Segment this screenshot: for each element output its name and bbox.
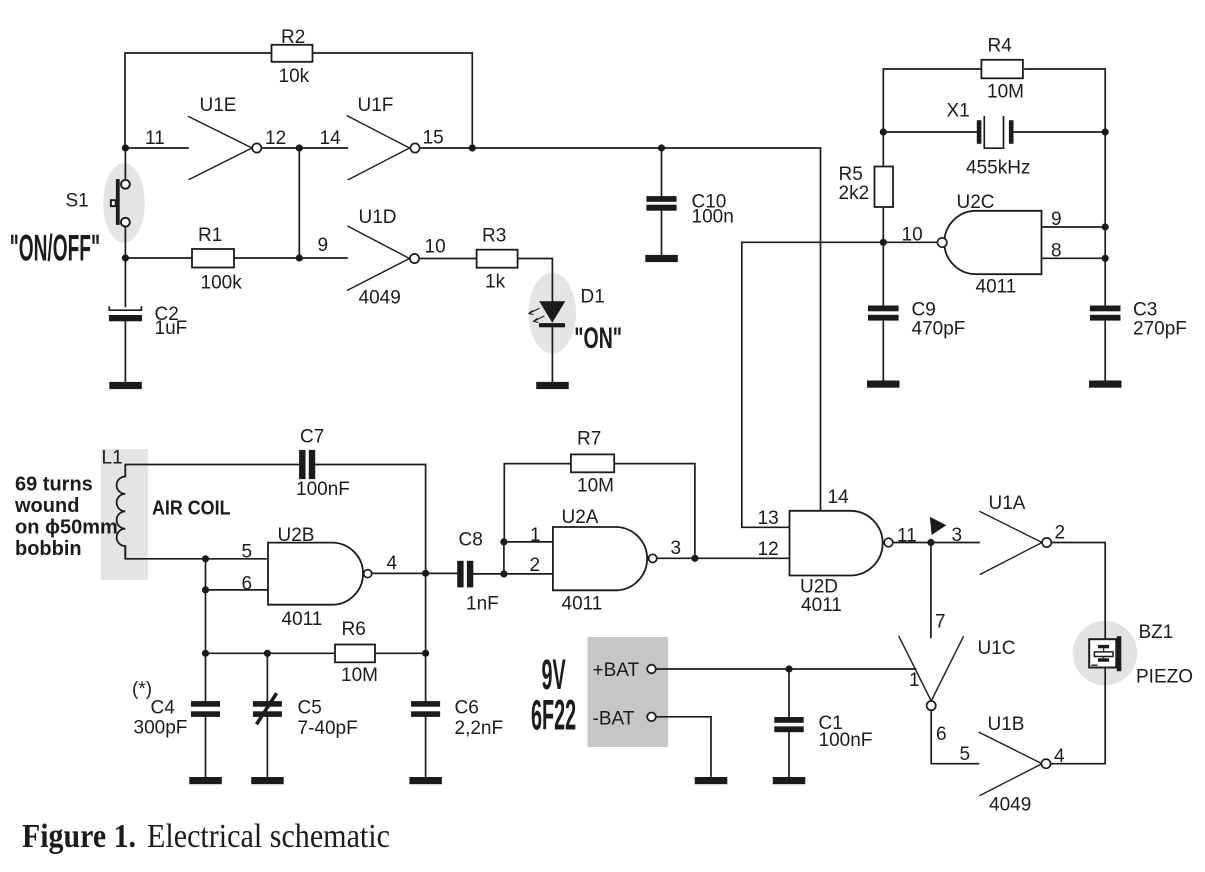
svg-text:Figure 1.: Figure 1. <box>22 818 136 855</box>
wire X1 right <box>1013 131 1105 133</box>
wire node 12 to node 9 <box>298 148 300 258</box>
wire top loop left <box>125 53 271 148</box>
svg-text:D1: D1 <box>581 287 605 308</box>
svg-text:R1: R1 <box>198 225 222 246</box>
svg-text:6: 6 <box>936 724 947 745</box>
svg-text:L1: L1 <box>102 448 123 469</box>
svg-text:U1D: U1D <box>359 207 397 228</box>
wire U2B output node to C6 <box>425 573 427 701</box>
svg-text:R7: R7 <box>577 429 601 450</box>
inverter U1A <box>979 511 1051 574</box>
svg-text:455kHz: 455kHz <box>966 158 1030 179</box>
wire S1 top <box>124 148 126 180</box>
wire L1 top to C7 <box>125 464 299 466</box>
svg-text:4011: 4011 <box>282 609 323 630</box>
NAND gate U2C (mirrored) <box>938 211 1042 274</box>
ground C5 <box>251 777 284 784</box>
wire U1A output to piezo <box>1051 543 1105 640</box>
NAND gate U2B <box>268 543 372 605</box>
ground C4 <box>189 777 222 784</box>
wire R7 left loop <box>504 464 571 542</box>
svg-text:11: 11 <box>897 526 917 547</box>
wire pin 11 <box>125 147 188 149</box>
wire R7 right loop <box>614 464 695 559</box>
svg-text:PIEZO: PIEZO <box>1136 667 1193 688</box>
wire R2 right to U1F column <box>314 53 472 148</box>
capacitor C7 <box>299 450 315 479</box>
svg-text:S1: S1 <box>66 191 89 212</box>
svg-text:7: 7 <box>935 612 946 633</box>
svg-text:5: 5 <box>960 744 971 765</box>
wire U2B output to C8 <box>372 572 457 574</box>
ground C10 <box>645 255 678 262</box>
svg-text:1nF: 1nF <box>466 594 499 615</box>
svg-text:C3: C3 <box>1133 300 1157 321</box>
svg-text:U1F: U1F <box>358 95 394 116</box>
svg-text:10: 10 <box>425 237 446 258</box>
resistor R3 <box>477 250 518 268</box>
ground battery <box>695 777 728 784</box>
wire R6 right <box>375 652 426 654</box>
wire C3 to ground <box>1104 321 1106 381</box>
svg-text:10M: 10M <box>987 82 1024 103</box>
svg-text:C5: C5 <box>298 698 322 719</box>
resistor R4 <box>981 60 1023 79</box>
LED D1 <box>539 301 565 327</box>
switch S1 <box>111 179 130 227</box>
wire +BAT to U1C pin 1 <box>656 668 916 670</box>
wire C1 bottom to ground <box>788 732 790 777</box>
svg-text:6F22: 6F22 <box>531 692 576 740</box>
wire L1 bottom to U2B pin 5 <box>125 546 268 559</box>
wire C6 to ground <box>425 717 427 777</box>
inverter U1E <box>188 116 261 180</box>
L1 highlight <box>101 449 148 580</box>
wire node 3 to U1C input <box>930 543 932 638</box>
svg-text:U1C: U1C <box>978 638 1016 659</box>
wire U1F output to node 15 <box>420 147 473 149</box>
svg-text:4: 4 <box>1054 746 1065 767</box>
svg-text:Electrical schematic: Electrical schematic <box>147 818 390 855</box>
svg-text:"ON": "ON" <box>574 322 622 355</box>
svg-text:(*): (*) <box>132 679 152 700</box>
svg-text:69 turns: 69 turns <box>15 474 93 496</box>
inverter U1B <box>979 732 1051 796</box>
battery terminal -BAT <box>647 713 656 722</box>
svg-text:100k: 100k <box>201 273 243 294</box>
wire main top rail to U2D pin 14 <box>472 148 820 511</box>
svg-text:4049: 4049 <box>989 795 1031 816</box>
svg-text:100n: 100n <box>692 207 734 228</box>
svg-text:U2B: U2B <box>278 525 315 546</box>
svg-text:14: 14 <box>320 128 342 149</box>
svg-text:C4: C4 <box>151 698 176 719</box>
svg-text:C6: C6 <box>455 698 479 719</box>
svg-text:R3: R3 <box>482 226 506 247</box>
svg-text:R2: R2 <box>281 27 305 48</box>
svg-text:X1: X1 <box>947 101 970 122</box>
crystal X1 <box>977 116 1014 148</box>
svg-text:R5: R5 <box>839 164 863 185</box>
wire U2C pin 9 <box>1042 226 1106 228</box>
inductor L1 <box>117 465 126 559</box>
wire U2B pin 6 <box>206 559 269 590</box>
capacitor C8 <box>457 561 473 588</box>
piezo BZ1 highlight <box>1073 621 1137 685</box>
wire U2C pin 8 <box>1042 257 1106 259</box>
NAND gate U2D <box>790 511 893 576</box>
svg-text:1: 1 <box>530 525 541 546</box>
svg-text:C8: C8 <box>459 530 483 551</box>
svg-text:3: 3 <box>671 538 682 559</box>
svg-text:4049: 4049 <box>359 288 401 309</box>
wire C5 to ground <box>266 717 268 777</box>
svg-text:4011: 4011 <box>562 594 603 615</box>
inverter U1C (pointing down) <box>899 636 964 710</box>
svg-text:13: 13 <box>758 508 779 529</box>
wire U2C pin 10 to U2D pin 13 <box>742 242 938 527</box>
wire R5 bottom to C9 <box>882 207 884 306</box>
wire R4 left loop <box>883 69 980 167</box>
svg-text:2: 2 <box>530 555 541 576</box>
svg-text:8: 8 <box>1051 241 1062 262</box>
svg-text:100nF: 100nF <box>296 479 350 500</box>
resistor R1 <box>192 249 234 268</box>
S1 highlight ellipse <box>103 163 145 243</box>
wire pin 14 <box>299 147 347 149</box>
svg-text:4011: 4011 <box>801 595 842 616</box>
svg-text:12: 12 <box>758 539 779 560</box>
inverter U1F <box>347 116 420 181</box>
svg-text:14: 14 <box>828 487 850 508</box>
svg-text:C9: C9 <box>912 300 936 321</box>
ground C3 <box>1089 381 1122 388</box>
svg-text:6: 6 <box>242 574 253 595</box>
svg-text:2: 2 <box>1055 523 1066 544</box>
capacitor C4 <box>191 701 220 717</box>
svg-text:15: 15 <box>423 128 444 149</box>
wire C7 to U2B output node <box>315 465 425 574</box>
svg-text:U1A: U1A <box>989 493 1026 514</box>
svg-text:11: 11 <box>145 128 165 149</box>
svg-text:4: 4 <box>387 553 398 574</box>
wire C10 top <box>661 148 663 196</box>
resistor R6 <box>335 645 375 663</box>
svg-text:R6: R6 <box>342 619 366 640</box>
svg-text:5: 5 <box>242 542 253 563</box>
svg-text:+BAT: +BAT <box>593 660 640 681</box>
wire node to C4 <box>205 590 207 701</box>
battery terminal +BAT <box>647 665 656 674</box>
svg-text:U1E: U1E <box>200 95 237 116</box>
wire U1D output to R3 <box>419 258 477 260</box>
svg-text:U1B: U1B <box>988 714 1025 735</box>
capacitor C1 <box>774 717 803 732</box>
capacitor C5 (variable) <box>253 693 282 724</box>
svg-text:R4: R4 <box>988 36 1013 57</box>
signal arrow at node 3 <box>930 517 947 535</box>
wire U1B output to piezo <box>1051 668 1106 764</box>
svg-text:1: 1 <box>909 670 920 691</box>
wire R4 right loop to C3 <box>1025 69 1105 306</box>
svg-text:2,2nF: 2,2nF <box>455 718 504 739</box>
svg-text:10: 10 <box>902 225 923 246</box>
svg-text:7-40pF: 7-40pF <box>298 718 358 739</box>
svg-text:10M: 10M <box>341 665 378 686</box>
wire X1 left <box>883 131 977 133</box>
capacitor C10 <box>646 196 676 211</box>
piezo BZ1 <box>1089 636 1121 671</box>
wire R1 to U1D input <box>234 257 347 259</box>
svg-text:BZ1: BZ1 <box>1139 622 1174 643</box>
svg-text:300pF: 300pF <box>134 718 188 739</box>
wire -BAT to ground <box>656 717 711 776</box>
resistor R2 <box>272 45 313 62</box>
svg-text:C7: C7 <box>300 426 324 447</box>
svg-text:12: 12 <box>265 128 286 149</box>
inverter U1D <box>347 226 419 291</box>
svg-text:bobbin: bobbin <box>15 538 82 560</box>
svg-text:3: 3 <box>952 525 963 546</box>
wire U2A pin 1 <box>504 541 553 543</box>
ground C1 <box>773 777 806 784</box>
capacitor C2 <box>109 306 142 321</box>
svg-text:10M: 10M <box>577 476 614 497</box>
ground C2 <box>109 382 142 389</box>
wire S1 bottom to R1 node to C2 <box>124 227 126 306</box>
resistor R7 <box>571 454 614 472</box>
ground C6 <box>409 777 442 784</box>
svg-text:270pF: 270pF <box>1133 319 1187 340</box>
svg-text:4011: 4011 <box>976 277 1017 298</box>
capacitor C6 <box>411 701 440 717</box>
wire C8 to U2A pin 2 <box>473 573 553 575</box>
ground D1 <box>536 382 569 389</box>
svg-text:470pF: 470pF <box>912 319 966 340</box>
svg-text:AIR COIL: AIR COIL <box>152 498 231 520</box>
svg-text:1k: 1k <box>485 272 506 293</box>
svg-text:"ON/OFF": "ON/OFF" <box>10 228 100 270</box>
ground C9 <box>867 381 900 388</box>
svg-text:U2C: U2C <box>957 192 995 213</box>
resistor R5 <box>875 167 894 208</box>
wire C2 to ground <box>124 321 126 382</box>
svg-text:2k2: 2k2 <box>839 183 870 204</box>
capacitor C3 <box>1090 306 1121 321</box>
wire node to C5 <box>266 653 268 701</box>
svg-text:U2A: U2A <box>562 507 599 528</box>
wire C1 top <box>788 669 790 717</box>
wire R6 left <box>206 652 336 654</box>
LED D1 arrows <box>529 308 544 322</box>
LED D1 highlight <box>528 273 576 354</box>
wire node to R1 <box>125 257 192 259</box>
svg-text:100nF: 100nF <box>819 730 873 751</box>
svg-text:1uF: 1uF <box>155 318 188 339</box>
wire U1E output to node 12 <box>261 147 299 149</box>
NAND gate U2A <box>553 527 657 590</box>
wire C4 to ground <box>205 717 207 777</box>
wire U1C output to U1B input <box>931 710 978 763</box>
wire C10 bottom <box>661 211 663 255</box>
wire C9 to ground <box>882 321 884 381</box>
wire D1 to ground <box>551 327 553 382</box>
svg-text:on ϕ50mm: on ϕ50mm <box>15 517 118 539</box>
wire R3 to D1 <box>517 259 552 302</box>
wire U2D output to U1A input <box>893 542 979 544</box>
svg-text:9: 9 <box>1051 209 1062 230</box>
battery connector highlight <box>588 637 669 747</box>
wire C8 node to pin1 node <box>503 542 505 574</box>
capacitor C9 <box>868 306 899 321</box>
svg-text:-BAT: -BAT <box>593 709 635 730</box>
svg-text:10k: 10k <box>279 66 310 87</box>
svg-text:9: 9 <box>318 235 329 256</box>
svg-text:wound: wound <box>14 495 79 517</box>
wire U2A output to U2D pin 12 <box>657 557 790 559</box>
